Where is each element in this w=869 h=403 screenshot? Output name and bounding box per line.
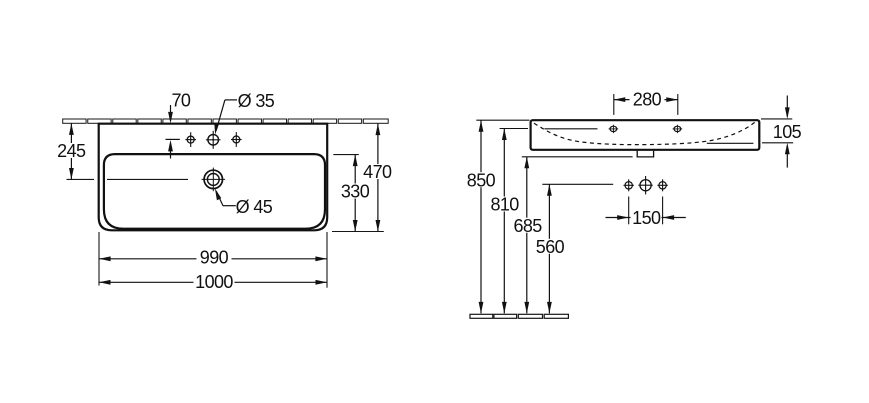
floor bars xyxy=(470,314,568,318)
dim 990 xyxy=(99,248,327,268)
svg-text:70: 70 xyxy=(171,91,190,111)
supply crosshair left xyxy=(624,179,634,191)
extension lines below basin (left and right) xyxy=(98,232,100,286)
svg-text:245: 245 xyxy=(57,141,86,161)
interior line right xyxy=(707,142,754,144)
svg-text:850: 850 xyxy=(467,170,496,190)
dim 70 xyxy=(166,91,191,159)
svg-text:150: 150 xyxy=(632,208,661,228)
svg-text:105: 105 xyxy=(773,122,802,142)
dashed bowl profile xyxy=(534,122,755,144)
dim 810 xyxy=(489,129,529,314)
dim 685 xyxy=(512,157,633,314)
svg-text:685: 685 xyxy=(513,216,542,236)
svg-text:330: 330 xyxy=(341,182,370,202)
dim 245 xyxy=(56,123,88,179)
svg-text:810: 810 xyxy=(490,195,519,215)
deck hole right (front view) xyxy=(673,125,683,133)
svg-text:990: 990 xyxy=(200,248,229,268)
wall tiles (plan view, top) xyxy=(63,119,388,123)
centerline through drain xyxy=(67,178,95,180)
supply crosshair right xyxy=(657,179,667,191)
basin outer outline (plan view) xyxy=(99,124,328,231)
faucet hole left xyxy=(185,132,196,147)
faucet hole right xyxy=(231,132,242,147)
dim 150 xyxy=(606,208,686,228)
interior shelf line left xyxy=(544,128,597,130)
drain trap stub below basin xyxy=(637,151,653,157)
label Ø 35 xyxy=(214,91,275,135)
basin inner bowl (plan view) xyxy=(104,154,325,229)
dim 1000 xyxy=(99,272,327,292)
dim 105 xyxy=(761,96,802,168)
drain hole xyxy=(202,168,226,192)
svg-text:470: 470 xyxy=(363,162,392,182)
dim 850 xyxy=(465,120,530,313)
deck hole left (front view) xyxy=(609,125,619,133)
dim 280 xyxy=(614,89,678,115)
basin rectangle (front view) xyxy=(531,120,760,150)
svg-text:560: 560 xyxy=(536,237,565,257)
dim 560 xyxy=(534,184,613,313)
supply crosshair middle xyxy=(638,176,652,194)
faucet hole middle xyxy=(206,131,221,149)
svg-text:280: 280 xyxy=(633,89,662,109)
svg-text:Ø 45: Ø 45 xyxy=(236,197,273,217)
label Ø 45 xyxy=(215,188,273,217)
ext lines below crosshairs xyxy=(628,197,630,225)
dim 470 xyxy=(332,124,394,232)
svg-text:1000: 1000 xyxy=(195,272,233,292)
svg-text:Ø 35: Ø 35 xyxy=(238,91,275,111)
dim 330 xyxy=(333,155,371,232)
